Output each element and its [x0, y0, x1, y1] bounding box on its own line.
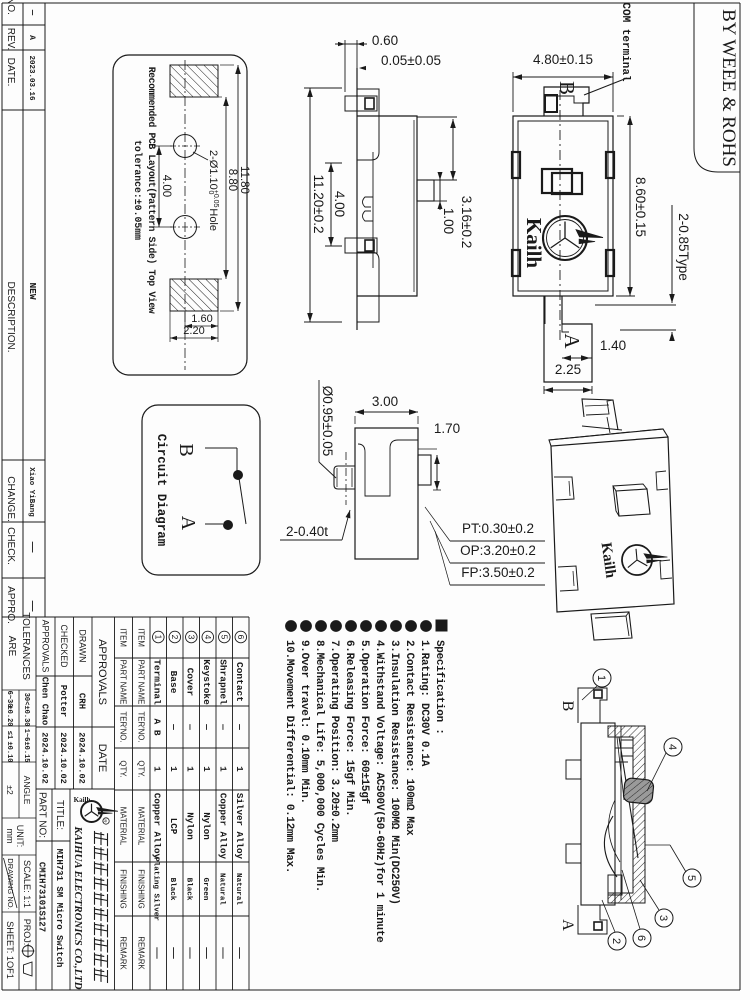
svg-text:CHANGE.: CHANGE. — [5, 476, 16, 522]
svg-text:Copper Alloy: Copper Alloy — [218, 793, 229, 860]
svg-text:0.60: 0.60 — [372, 33, 398, 48]
svg-text:Copper Alloy: Copper Alloy — [152, 793, 163, 860]
svg-text:1: 1 — [168, 766, 179, 772]
svg-text:NEW: NEW — [27, 282, 38, 299]
svg-text:CHECKED: CHECKED — [59, 624, 69, 667]
svg-text:2.Contact Resistance: 100mΩ Ma: 2.Contact Resistance: 100mΩ Max — [403, 640, 415, 836]
svg-text:3.16±0.2: 3.16±0.2 — [459, 196, 474, 248]
svg-text:±2: ±2 — [5, 785, 15, 795]
svg-text:2023.03.16: 2023.03.16 — [27, 55, 35, 101]
svg-text:――: ―― — [168, 946, 179, 959]
svg-text:2.20: 2.20 — [183, 325, 204, 337]
svg-text:±0.20: ±0.20 — [5, 705, 13, 726]
svg-text:2-Ø1.10+0.050Hole: 2-Ø1.10+0.050Hole — [207, 150, 219, 231]
svg-text:2: 2 — [610, 938, 622, 944]
svg-text:CHECK.: CHECK. — [5, 527, 16, 565]
svg-text:Ø0.95±0.05: Ø0.95±0.05 — [320, 386, 335, 456]
svg-text:0.05±0.05: 0.05±0.05 — [381, 53, 441, 68]
svg-text:DATE: DATE — [96, 744, 108, 773]
svg-text:―: ― — [185, 723, 196, 730]
svg-text:Specification :: Specification : — [433, 640, 445, 735]
svg-text:FINISHING: FINISHING — [119, 869, 128, 908]
svg-text:DESCRIPTION.: DESCRIPTION. — [5, 281, 16, 352]
svg-text:±0.15: ±0.15 — [22, 741, 30, 762]
svg-text:Kailh: Kailh — [74, 796, 91, 804]
svg-text:Xiao YiBang: Xiao YiBang — [27, 467, 35, 517]
svg-text:SCALE: 1:1: SCALE: 1:1 — [22, 860, 32, 908]
svg-text:ANGLE: ANGLE — [22, 776, 32, 805]
svg-text:NO.: NO. — [5, 0, 16, 15]
svg-text:――: ―― — [27, 600, 37, 612]
svg-text:8.60±0.15: 8.60±0.15 — [633, 177, 648, 237]
svg-text:3.00: 3.00 — [372, 394, 398, 409]
svg-text:1: 1 — [185, 766, 196, 772]
svg-text:±0.10: ±0.10 — [5, 741, 13, 762]
svg-text:――: ―― — [152, 946, 163, 959]
svg-text:4: 4 — [666, 744, 678, 750]
svg-text:Base: Base — [168, 671, 179, 694]
svg-text:Recommended PCB Layout(Pattern: Recommended PCB Layout(Pattern Side) Top… — [146, 67, 157, 314]
svg-text:Nylon: Nylon — [201, 812, 212, 840]
svg-text:ITEM: ITEM — [119, 628, 128, 647]
svg-text:4: 4 — [203, 635, 213, 640]
svg-text:A: A — [177, 516, 199, 531]
svg-text:Black: Black — [168, 878, 176, 901]
svg-text:PART NO:: PART NO: — [37, 792, 48, 838]
svg-text:9.Over travel: 0.10mm Min.: 9.Over travel: 0.10mm Min. — [298, 640, 310, 804]
svg-text:Nylon: Nylon — [185, 812, 196, 840]
svg-text:Contact: Contact — [234, 662, 245, 702]
svg-text:REMARK: REMARK — [119, 936, 128, 970]
svg-text:Plating Silver: Plating Silver — [152, 857, 160, 921]
svg-text:DRAWN: DRAWN — [78, 630, 88, 663]
svg-text:REV.: REV. — [5, 28, 16, 50]
svg-text:1: 1 — [218, 766, 229, 772]
svg-text:MIH731 SM Micro Switch: MIH731 SM Micro Switch — [54, 849, 64, 968]
svg-text:A: A — [27, 35, 36, 40]
svg-text:Cover: Cover — [185, 668, 196, 697]
svg-text:Shrapnel: Shrapnel — [218, 659, 229, 705]
svg-text:10.Movement Differential: 0.12: 10.Movement Differential: 0.12mm Max. — [283, 640, 295, 873]
svg-text:TITLE:: TITLE: — [54, 800, 65, 830]
svg-text:4.80±0.15: 4.80±0.15 — [533, 52, 593, 67]
svg-text:TER'NO.: TER'NO. — [119, 712, 128, 743]
svg-text:FINISHING: FINISHING — [136, 869, 145, 908]
svg-text:1: 1 — [153, 635, 163, 640]
svg-text:7.Operating Position: 3.20±0.2: 7.Operating Position: 3.20±0.2mm — [328, 640, 340, 842]
svg-text:APPROVALS: APPROVALS — [96, 639, 108, 705]
svg-text:5: 5 — [219, 635, 229, 640]
svg-text:2.25: 2.25 — [555, 362, 581, 377]
svg-text:2-0.85Type: 2-0.85Type — [676, 213, 691, 281]
svg-text:CMIH73101S127: CMIH73101S127 — [37, 862, 47, 932]
svg-text:―: ― — [168, 723, 179, 730]
svg-text:11.20±0.2: 11.20±0.2 — [311, 175, 326, 234]
svg-text:2024.10.02: 2024.10.02 — [58, 732, 68, 784]
svg-text:―: ― — [27, 9, 37, 16]
svg-text:≤1: ≤1 — [5, 731, 13, 739]
svg-text:1: 1 — [595, 675, 607, 681]
svg-text:DATE.: DATE. — [5, 58, 16, 87]
svg-text:MATERIAL: MATERIAL — [136, 807, 145, 846]
svg-text:5: 5 — [685, 875, 697, 881]
svg-text:APPROVALS: APPROVALS — [41, 620, 51, 673]
svg-text:A: A — [559, 919, 576, 931]
svg-text:1: 1 — [201, 766, 212, 772]
svg-text:1~6: 1~6 — [22, 729, 30, 742]
svg-text:8.80: 8.80 — [226, 169, 238, 191]
svg-text:Silver Alloy: Silver Alloy — [234, 793, 245, 860]
svg-text:3: 3 — [186, 635, 196, 640]
svg-text:ARE: ARE — [6, 636, 17, 657]
svg-text:±0.30: ±0.30 — [22, 705, 30, 726]
svg-text:A: A — [560, 333, 584, 349]
svg-text:6.Releasing Force: 15gf Min.: 6.Releasing Force: 15gf Min. — [343, 640, 355, 816]
svg-text:PART NAME: PART NAME — [136, 660, 145, 705]
svg-text:FP:3.50±0.2: FP:3.50±0.2 — [461, 565, 534, 580]
svg-text:TER'NO.: TER'NO. — [136, 712, 145, 743]
svg-text:――: ―― — [201, 946, 212, 959]
svg-text:SHEET: 1OF1: SHEET: 1OF1 — [5, 921, 15, 979]
svg-text:―: ― — [234, 723, 245, 730]
svg-text:2024.10.02: 2024.10.02 — [77, 732, 87, 784]
svg-text:B: B — [559, 701, 576, 712]
svg-text:1.60: 1.60 — [191, 313, 212, 325]
svg-text:1.40: 1.40 — [600, 338, 626, 353]
svg-text:REMARK: REMARK — [136, 936, 145, 970]
svg-text:30<: 30< — [22, 693, 30, 706]
svg-text:Keystoke: Keystoke — [201, 659, 212, 705]
svg-text:BY WEEE & ROHS: BY WEEE & ROHS — [718, 9, 739, 167]
svg-text:8.Mechanical Life: 5,000,000 C: 8.Mechanical Life: 5,000,000 Cycles Min. — [313, 640, 325, 892]
svg-text:Natural: Natural — [218, 873, 226, 905]
svg-text:QTY.: QTY. — [136, 760, 145, 777]
svg-text:MATERIAL: MATERIAL — [119, 807, 128, 846]
svg-text:APPRO.: APPRO. — [5, 586, 16, 624]
svg-text:QTY.: QTY. — [119, 760, 128, 777]
svg-text:mm: mm — [5, 829, 15, 844]
svg-text:tolerance:±0.05mm: tolerance:±0.05mm — [132, 140, 143, 240]
svg-text:1.70: 1.70 — [434, 421, 460, 436]
svg-text:Black: Black — [185, 878, 193, 901]
svg-text:――: ―― — [27, 541, 37, 553]
svg-text:1: 1 — [152, 766, 163, 772]
svg-text:4.00: 4.00 — [160, 175, 172, 197]
svg-text:PART NAME: PART NAME — [119, 660, 128, 705]
svg-text:2-0.40t: 2-0.40t — [286, 524, 328, 539]
svg-text:UNIT:: UNIT: — [15, 825, 25, 848]
svg-text:――: ―― — [234, 946, 245, 959]
svg-text:―: ― — [218, 723, 229, 730]
svg-text:COM terminal: COM terminal — [619, 2, 631, 82]
svg-text:5.Operation Force: 60±15gf: 5.Operation Force: 60±15gf — [358, 640, 370, 805]
svg-text:PT:0.30±0.2: PT:0.30±0.2 — [462, 521, 534, 536]
svg-text:A B: A B — [152, 718, 163, 735]
svg-text:Natural: Natural — [234, 873, 242, 905]
svg-text:3.Insulation Resistance: 100MΩ: 3.Insulation Resistance: 100MΩ Min(DC250… — [388, 640, 400, 905]
svg-text:Kailh: Kailh — [522, 218, 546, 269]
svg-text:ITEM: ITEM — [136, 628, 145, 647]
svg-text:4.Withstand Voltage: AC500V(50: 4.Withstand Voltage: AC500V(50-60Hz)for … — [373, 640, 385, 943]
svg-text:B: B — [175, 443, 197, 456]
svg-text:KAIHUA ELECTRONICS CO.,LTD: KAIHUA ELECTRONICS CO.,LTD — [72, 826, 84, 990]
svg-text:Chen Chao: Chen Chao — [40, 677, 50, 726]
svg-text:B: B — [555, 81, 579, 95]
svg-text:6: 6 — [635, 935, 647, 941]
svg-text:Potter: Potter — [58, 685, 68, 717]
svg-text:2: 2 — [170, 635, 180, 640]
svg-text:1.Rating: DC30V 0.1A: 1.Rating: DC30V 0.1A — [418, 640, 430, 767]
svg-text:――: ―― — [185, 946, 196, 959]
svg-text:Terminal: Terminal — [152, 659, 163, 705]
svg-text:LCP: LCP — [168, 818, 179, 835]
svg-text:―: ― — [201, 723, 212, 730]
svg-text:Green: Green — [201, 878, 209, 901]
svg-text:TOLERANCES: TOLERANCES — [20, 612, 31, 680]
svg-text:11.80: 11.80 — [238, 166, 250, 194]
svg-text:3: 3 — [657, 915, 669, 921]
svg-text:1: 1 — [234, 766, 245, 772]
svg-text:6: 6 — [236, 635, 246, 640]
svg-text:PROJ:: PROJ: — [22, 919, 32, 946]
svg-text:4.00: 4.00 — [332, 191, 347, 217]
svg-text:OP:3.20±0.2: OP:3.20±0.2 — [460, 543, 536, 558]
svg-text:2024.10.02: 2024.10.02 — [40, 732, 50, 784]
svg-text:――: ―― — [218, 946, 229, 959]
svg-text:Circuit Diagram: Circuit Diagram — [154, 434, 168, 547]
svg-text:1.00: 1.00 — [441, 208, 456, 234]
svg-text:CRH: CRH — [77, 693, 87, 709]
